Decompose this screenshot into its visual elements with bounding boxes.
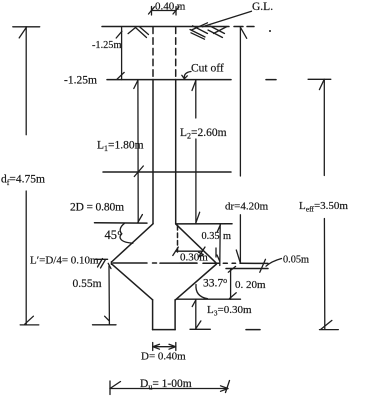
bulb centre line (dash-dot) — [113, 262, 147, 264]
df dimension line (left) — [13, 27, 40, 325]
0.05m second line — [226, 268, 268, 270]
svg-text:0.40m: 0.40m — [155, 1, 186, 13]
bulb lower-left edge — [112, 264, 153, 300]
cut off leader arrow — [184, 72, 191, 79]
L'=D/4 leader marks at left vertex — [95, 259, 111, 269]
svg-text:L′=D/4= 0.10m: L′=D/4= 0.10m — [30, 254, 99, 266]
2D bottom extension line — [95, 222, 148, 224]
L2 dimension line — [192, 80, 200, 224]
pile toe line — [153, 329, 176, 331]
Leff dimension line (right) — [308, 79, 338, 329]
D=0.40m bottom dimension — [153, 343, 176, 351]
bulb left vertex vertical — [111, 262, 113, 264]
svg-text:-1.25m: -1.25m — [92, 40, 121, 51]
Du bottom dimension — [110, 381, 230, 395]
ground line dashed continuation — [234, 26, 254, 28]
svg-text:0. 20m: 0. 20m — [235, 279, 266, 291]
bulb upper-left 45deg edge — [112, 224, 154, 262]
-1.25m dimension line (GL to cutoff) — [116, 27, 124, 80]
cut off line dashed continuation — [266, 79, 276, 81]
slash on L1 line — [134, 166, 143, 177]
45 degree arc — [120, 223, 133, 243]
33.7 degree arc — [196, 285, 208, 299]
L1 / 2D dimension line — [134, 80, 143, 223]
svg-text:Du= 1-00m: Du= 1-00m — [140, 378, 192, 392]
bulb upper-right 45deg edge — [176, 224, 217, 263]
0.35m dimension line — [217, 225, 220, 266]
svg-text:L2=2.60m: L2=2.60m — [180, 127, 227, 141]
svg-text:0.05m: 0.05m — [283, 255, 309, 266]
L3 dimension line — [190, 299, 210, 329]
short vertical tick above right vertex — [215, 248, 217, 257]
svg-text:m: m — [223, 231, 231, 242]
bottom shaft left — [152, 300, 154, 330]
level line between L1 and 2D — [103, 171, 231, 173]
G.L. leader line — [203, 11, 252, 27]
soil hatch right of shaft (crossing marks) — [190, 23, 227, 39]
svg-text:-1.25m: -1.25m — [64, 75, 97, 87]
dashed extension of shaft edge — [177, 226, 179, 253]
bottom shaft right — [174, 300, 176, 330]
0.20m dimension line — [177, 266, 241, 299]
0.05m leader — [266, 259, 282, 267]
stray dot — [269, 30, 271, 32]
soil hatch left of shaft — [128, 27, 148, 38]
svg-text:0.30m: 0.30m — [180, 252, 208, 264]
0.30m horizontal dimension — [173, 247, 205, 257]
0.40m top dimension — [149, 7, 180, 16]
0.55m dimension line — [93, 266, 117, 325]
svg-text:dr=4.20m: dr=4.20m — [225, 201, 269, 213]
ground line G.L. — [102, 26, 229, 28]
toe level dash right — [246, 329, 260, 331]
right horizontal line at bulb top — [176, 223, 232, 225]
svg-text:2D = 0.80m: 2D = 0.80m — [70, 202, 124, 214]
0.05m slash — [260, 259, 266, 272]
svg-text:0.35: 0.35 — [202, 231, 220, 242]
cut off line — [107, 79, 231, 81]
svg-text:0.55m: 0.55m — [73, 278, 102, 290]
svg-text:D= 0.40m: D= 0.40m — [141, 351, 186, 363]
svg-text:G.L.: G.L. — [252, 1, 273, 13]
pile shaft right line — [175, 80, 177, 224]
svg-text:Cut off: Cut off — [191, 63, 224, 75]
dr dimension line — [236, 27, 246, 263]
bulb lower-right edge — [176, 264, 217, 300]
centre line solid extension — [240, 262, 268, 264]
dashed shaft above cut off — [152, 27, 154, 80]
pile shaft left line — [152, 80, 154, 224]
svg-text:L1=1.80m: L1=1.80m — [97, 139, 144, 153]
